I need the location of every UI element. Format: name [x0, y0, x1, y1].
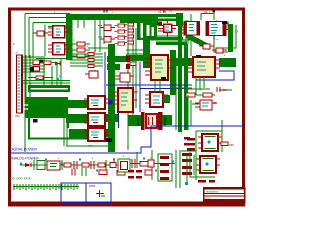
wire rows left mid — [23, 58, 70, 85]
wire stubs U14 — [138, 117, 165, 126]
svg-text:xxx xxxx xxxx: xxx xxxx xxxx — [10, 177, 31, 181]
bus top double bars — [157, 14, 176, 17]
IC U17 — [195, 100, 217, 110]
resistor pack RP2 — [88, 53, 94, 68]
diode D1 — [55, 62, 60, 66]
wire opto frames — [187, 120, 222, 185]
svg-text:xxx: xxx — [222, 88, 227, 92]
IC U16 — [145, 92, 168, 107]
gate U4b — [98, 37, 115, 43]
node cyan dots left — [29, 78, 59, 93]
crystal X1 — [148, 160, 154, 167]
IC U20 — [118, 159, 130, 172]
bus around U12 right — [106, 129, 115, 137]
resistor bank left-mid column — [128, 23, 134, 44]
resistor left of U5 — [157, 22, 162, 26]
IC U7yellow big — [145, 55, 174, 81]
wire osc chain — [20, 150, 180, 188]
resistor R10 — [64, 163, 71, 167]
gate U4a — [98, 25, 115, 31]
bus top horizontal — [66, 14, 158, 20]
bus mid solid zone — [137, 14, 188, 132]
bus band below U5 second — [156, 42, 187, 46]
resistor bank under optos — [198, 180, 215, 183]
bus right band — [219, 58, 236, 67]
wire RP4 frame — [181, 151, 196, 180]
IC U11 — [84, 96, 109, 109]
junction blob — [33, 119, 38, 123]
resistor R16 — [99, 170, 107, 175]
node white slots in mid zone — [141, 23, 155, 38]
bus blue vertical B2 — [139, 62, 141, 112]
bus blue vertical B1 — [104, 52, 106, 104]
node cyan dots chain — [20, 158, 174, 172]
inductor L1 — [110, 163, 116, 168]
bus blue power split — [10, 126, 243, 153]
capacitor C7 — [72, 169, 75, 176]
resistor pack RP1 — [115, 24, 125, 45]
labels left-mid cyan — [125, 24, 127, 43]
bus left of U7yellow — [126, 55, 143, 61]
resistor R8 — [186, 93, 195, 97]
svg-text:xx: xx — [213, 101, 217, 105]
svg-text:##: ## — [103, 9, 109, 14]
bus stub right of mid bus b — [107, 64, 120, 70]
wire comb J1 to mid — [23, 57, 45, 72]
svg-text:xx: xx — [8, 164, 12, 168]
wire top-left nest — [33, 23, 70, 60]
resistor R7 — [85, 71, 98, 78]
bus right of U14 — [162, 115, 172, 125]
wire left rail — [25, 14, 70, 153]
bus left vertical — [66, 14, 73, 60]
bus top right block — [176, 13, 183, 26]
IC U10 yellow — [113, 88, 137, 112]
bus blue horizontal mid a — [106, 84, 192, 86]
resistor R2 — [72, 48, 90, 52]
bus channel verticals — [88, 20, 108, 52]
svg-text:xx: xx — [204, 10, 208, 14]
resistor pack RP5 — [187, 138, 195, 151]
junction dot bottom — [106, 138, 112, 142]
capacitor C3 — [37, 161, 45, 170]
wire J1 rails — [26, 55, 30, 118]
gate U8a — [199, 44, 214, 49]
capacitor C5 — [91, 161, 94, 169]
IC U3 — [48, 43, 69, 55]
bus around U11 right — [106, 114, 118, 122]
resistor R3 — [72, 54, 90, 58]
resistor ladder RP4 — [182, 137, 192, 175]
svg-text:x1 xx: x1 xx — [158, 10, 167, 14]
bus thick right vertical — [228, 24, 233, 52]
bus around U10 left — [64, 100, 88, 108]
bus right of U7yellow — [170, 58, 192, 66]
resistor R12 — [98, 163, 105, 167]
diode D2 — [25, 163, 31, 167]
gate U1a — [33, 31, 48, 36]
resistor R14 — [221, 142, 228, 146]
bus left of U14 — [128, 115, 141, 126]
junction blob left — [30, 67, 34, 72]
bus band below U5 — [156, 37, 183, 40]
IC U12 — [84, 113, 109, 126]
resistor R5 — [44, 61, 57, 64]
IC U13 — [84, 128, 109, 141]
IC U18 — [115, 73, 134, 82]
svg-text:ANALOG POWER: ANALOG POWER — [10, 157, 39, 161]
logo component — [96, 190, 105, 197]
wire right column nets — [78, 20, 199, 130]
svg-text:xxx: xxx — [15, 114, 20, 118]
wire U5 frame — [150, 16, 181, 36]
IC U21 opto1 — [198, 134, 222, 151]
resistor ladder RP3 — [160, 156, 169, 180]
bus blue vertical B3 — [118, 107, 120, 128]
bus stub right of mid bus a — [107, 56, 126, 62]
bus around U11 left — [66, 114, 88, 123]
gate U9b — [33, 67, 45, 72]
resistor R13 — [140, 162, 148, 167]
wire top right loop — [201, 14, 236, 53]
label speckles red — [30, 38, 226, 160]
svg-text:xx: xx — [169, 10, 173, 14]
IC U7 — [206, 21, 233, 36]
bus left solid block — [25, 97, 68, 118]
capacitor C4 — [74, 161, 77, 169]
resistor R18 — [145, 170, 152, 175]
resistor R6 — [28, 76, 53, 79]
svg-text:DIGITAL POWER: DIGITAL POWER — [10, 148, 37, 152]
gate U9a — [33, 60, 45, 65]
capacitor C2 — [217, 87, 220, 92]
bus top thick section — [120, 14, 158, 23]
wire left frame under block — [29, 118, 112, 139]
box mounting area — [61, 183, 111, 203]
svg-text:x.x.x: x.x.x — [206, 197, 212, 200]
bus blue horizontal mid b — [140, 88, 192, 90]
bus left band — [28, 85, 70, 92]
bus diagonal — [186, 32, 209, 50]
bus mid vertical — [108, 44, 115, 152]
svg-text:xxxx: xxxx — [89, 184, 96, 188]
maroon stubs left edge mid — [126, 56, 130, 69]
wire vertical pair left of U10 — [64, 100, 112, 146]
wire under U8yellow — [186, 77, 232, 95]
IC U2 — [48, 26, 69, 38]
IC U5 — [158, 19, 176, 37]
svg-text:J?: J? — [15, 51, 19, 55]
resistor R9 — [203, 93, 212, 97]
svg-text:xxx: xxx — [88, 144, 93, 148]
resistor R1 — [72, 42, 90, 46]
wire mid grid — [126, 14, 191, 150]
wire RP3 frame — [158, 154, 172, 181]
bus right of U16 — [163, 95, 170, 103]
IC U22 opto2 — [196, 156, 220, 173]
junction dot above loop — [213, 10, 216, 13]
capacitor C6 — [132, 159, 135, 168]
capacitor bank under chain — [128, 170, 142, 179]
gate U8b — [212, 48, 227, 53]
pin header J2 — [13, 184, 79, 189]
svg-text:A_: A_ — [196, 39, 200, 43]
resistor R17 — [117, 171, 125, 176]
resistor R11 — [82, 163, 89, 167]
node cyan dot a — [185, 182, 188, 185]
svg-text:xxxxxxxxx: xxxxxxxxx — [206, 190, 219, 194]
IC U6 — [181, 22, 199, 36]
node white slots left — [20, 88, 68, 110]
label blue square — [108, 100, 113, 105]
wire comb mid column — [70, 54, 103, 66]
IC U8yellow right — [188, 55, 220, 77]
bus blue right loop — [196, 71, 234, 80]
title block — [203, 187, 246, 204]
IC U19 regulator — [47, 161, 60, 170]
connector J1 — [17, 55, 24, 113]
pin header pads — [13, 189, 74, 190]
junction dot J — [40, 60, 43, 63]
svg-text:xxx: xxx — [229, 143, 234, 147]
capacitor C1 — [92, 70, 95, 76]
resistor R15 — [130, 62, 136, 65]
IC U14 relay — [141, 112, 163, 130]
bus around U12 left — [69, 129, 88, 138]
